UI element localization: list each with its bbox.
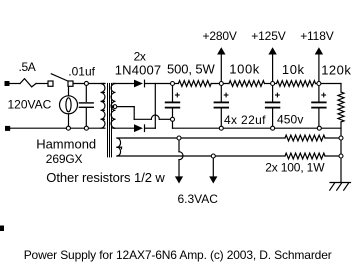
svg-text:Hammond: Hammond: [36, 137, 96, 152]
svg-text:1N4007: 1N4007: [115, 63, 161, 78]
svg-text:100k: 100k: [229, 62, 260, 77]
svg-text:6.3VAC: 6.3VAC: [178, 192, 219, 206]
svg-text:500, 5W: 500, 5W: [167, 62, 216, 77]
svg-text:450v: 450v: [277, 113, 303, 127]
svg-text:4x 22uf: 4x 22uf: [224, 113, 266, 127]
svg-text:.5A: .5A: [19, 60, 36, 74]
svg-text:+125V: +125V: [251, 29, 285, 43]
svg-text:2x 100, 1W: 2x 100, 1W: [265, 161, 325, 175]
svg-text:Power Supply for 12AX7-6N6 Amp: Power Supply for 12AX7-6N6 Amp. (c) 2003…: [24, 248, 332, 262]
svg-text:120VAC: 120VAC: [8, 97, 52, 111]
svg-text:+118V: +118V: [300, 29, 334, 43]
svg-text:10k: 10k: [282, 62, 305, 77]
svg-text:Other resistors 1/2 w: Other resistors 1/2 w: [46, 170, 165, 185]
svg-text:269GX: 269GX: [46, 152, 83, 166]
svg-text:2x: 2x: [134, 49, 146, 63]
svg-text:+280V: +280V: [203, 29, 237, 43]
svg-text:.01uf: .01uf: [68, 64, 95, 78]
svg-text:120k: 120k: [321, 62, 351, 77]
